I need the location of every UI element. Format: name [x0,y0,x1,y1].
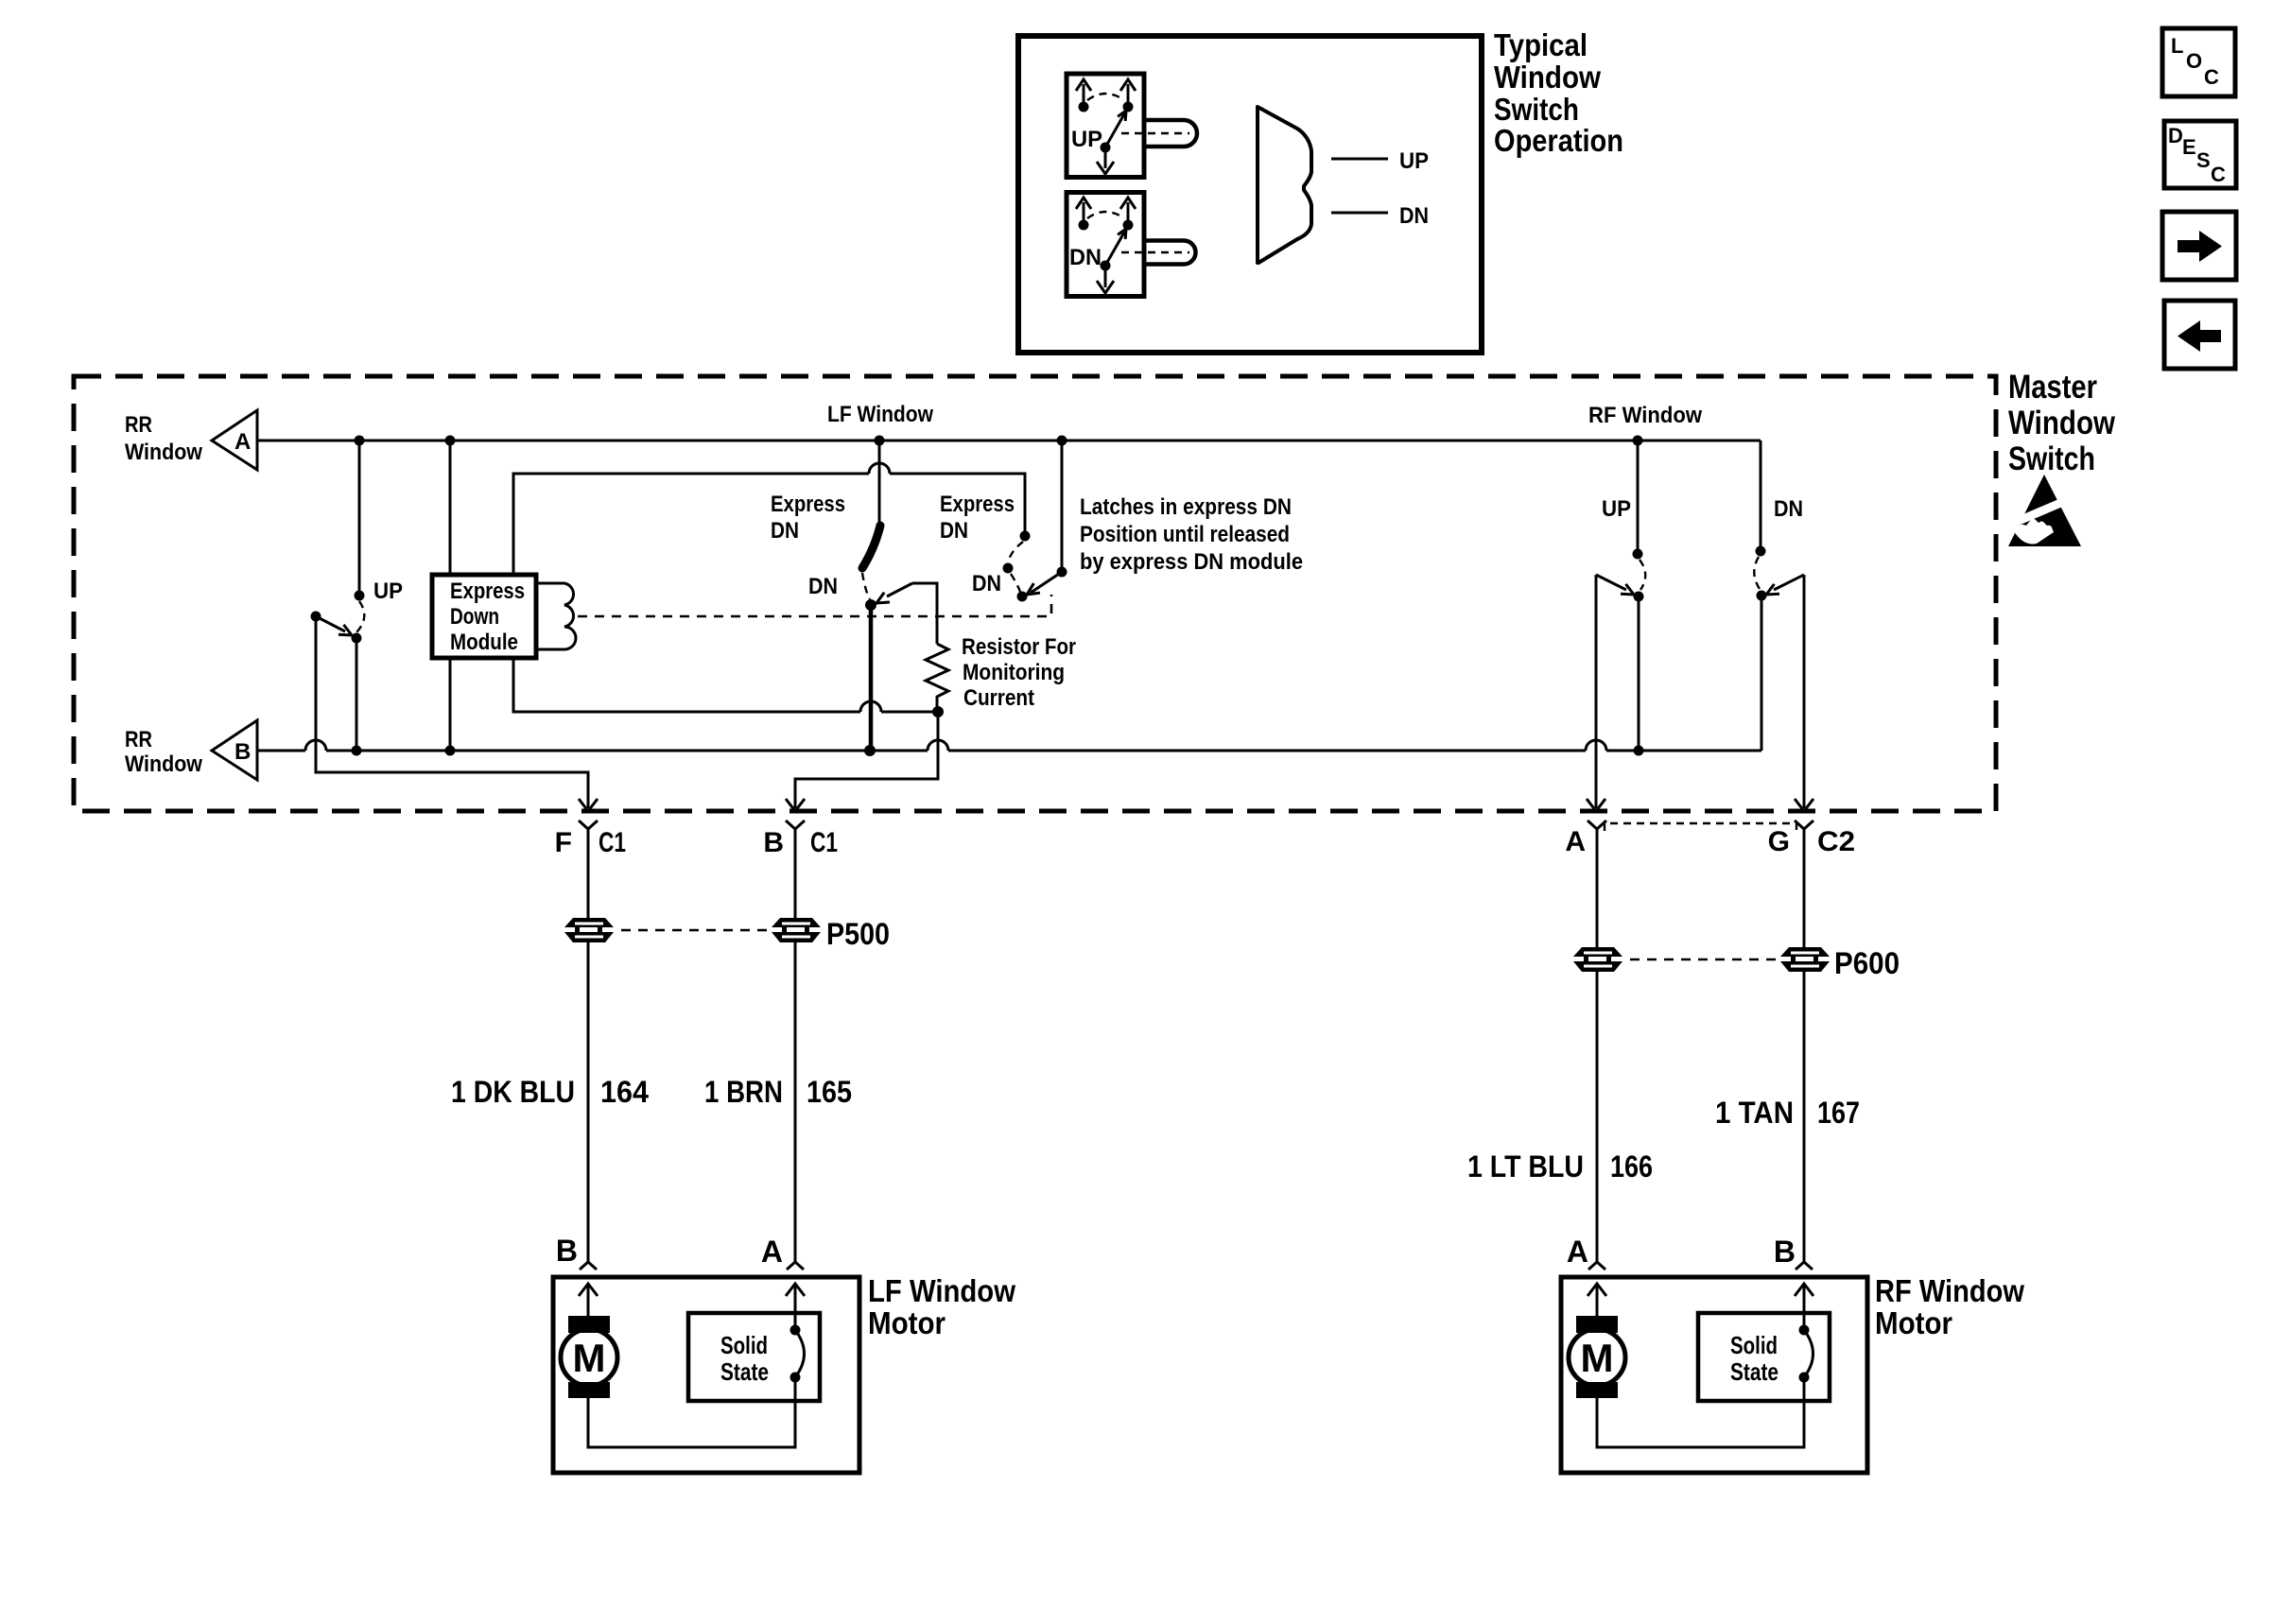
dashed control link from module coil [578,595,1051,616]
motor M RF [1569,1316,1625,1398]
label: 1 DK BLU 164 [451,1075,649,1109]
RF motor M entry arrow [1588,1284,1606,1316]
svg-text:Module: Module [450,630,518,655]
svg-text:Down: Down [450,604,499,630]
RF window motor box [1561,1277,1867,1473]
svg-text:164: 164 [600,1075,649,1109]
arrow into F C1 [579,799,598,811]
svg-text:Express: Express [450,579,525,604]
svg-text:Operation: Operation [1494,123,1623,158]
UP output line [1331,148,1429,174]
RF solid state entry arrow [1795,1284,1813,1330]
express down module wires [449,441,452,575]
motor M LF [561,1316,617,1398]
DN output line [1331,203,1429,229]
svg-text:State: State [1730,1357,1778,1386]
DN paddle [1121,241,1196,265]
master window switch dashed enclosure [74,376,1996,811]
svg-text:Motor: Motor [1875,1305,1952,1340]
solid state box LF [688,1313,820,1401]
svg-text:Resistor For: Resistor For [962,634,1076,660]
resistor for monitoring current [926,644,948,708]
svg-text:1 LT BLU: 1 LT BLU [1467,1149,1584,1183]
svg-text:Motor: Motor [868,1305,946,1340]
svg-text:E: E [2182,135,2196,159]
switch LF express DN (latched, thick lever) [808,441,880,751]
node B: RR Window triangle connector [125,720,257,780]
svg-text:D: D [2168,124,2183,147]
node junction dots on A bus [355,436,365,446]
svg-text:166: 166 [1610,1149,1653,1183]
svg-text:Window: Window [125,752,202,777]
title: Typical Window Switch Operation [1494,27,1623,158]
svg-text:1 TAN: 1 TAN [1715,1096,1794,1130]
wire: top A bus from triangle A to RF corner [257,440,1761,442]
connector F C1 [555,821,626,858]
svg-text:C: C [2204,65,2219,89]
wire: RF DN pole down to G C2 [1803,575,1806,808]
dashed link P600 [1630,959,1777,961]
svg-text:B: B [556,1234,578,1268]
label: 1 BRN 165 [704,1075,852,1109]
pin B at RF motor [1774,1235,1813,1270]
wire 164 (F to motor B) [587,942,590,1262]
svg-text:S: S [2196,148,2211,172]
svg-text:B: B [234,739,251,765]
svg-text:Position until released: Position until released [1080,522,1290,547]
wire: bottom B bus with crossover hops [257,740,1761,751]
svg-text:P500: P500 [826,917,890,951]
svg-text:Switch: Switch [1494,92,1579,127]
LF motor bottom loop wire [588,1377,795,1447]
RF motor bottom loop wire [1597,1377,1804,1447]
pin A at LF motor [761,1235,804,1270]
svg-text:C1: C1 [599,827,626,858]
svg-text:Window: Window [125,440,202,465]
wire: resistor node down to B C1 (hop over B bus) [795,712,938,808]
svg-text:Window: Window [1494,60,1601,95]
label: 1 TAN 167 [1715,1096,1860,1130]
wire: RF UP pole down to A C2 (hop over B bus) [1595,575,1598,808]
connector G C2 [1768,821,1855,857]
left arrow icon button [2164,301,2235,369]
LF window motor box [553,1277,859,1473]
svg-text:UP: UP [1399,148,1429,174]
svg-text:RR: RR [125,412,152,438]
svg-text:B: B [763,827,784,858]
svg-text:DN: DN [972,571,1001,596]
node A: RR Window triangle connector [125,410,257,470]
svg-text:M: M [573,1336,606,1380]
junction dots on B bus [352,746,362,756]
label: RF Window Motor [1875,1273,2024,1340]
svg-text:L: L [2171,34,2183,58]
wire 165 (B to motor A) [794,942,797,1262]
svg-text:Latches in express DN: Latches in express DN [1080,494,1292,520]
svg-text:by express DN module: by express DN module [1080,549,1303,575]
svg-text:167: 167 [1817,1096,1860,1130]
connector A C2 [1565,821,1606,857]
svg-text:Master: Master [2008,369,2097,406]
labels Express DN (left pair) [771,492,845,544]
svg-text:B: B [1774,1235,1796,1269]
label: LF Window Motor [868,1273,1015,1340]
wire B C1 down to P500 [794,829,797,918]
dashed link P500 [621,929,768,932]
ESD sensitivity symbol [1999,475,2085,546]
svg-text:G: G [1768,826,1790,857]
svg-text:A: A [234,429,251,455]
label: Resistor For Monitoring Current [962,634,1076,711]
svg-text:A: A [761,1235,783,1269]
svg-text:Solid: Solid [720,1331,768,1359]
svg-text:C: C [2211,163,2226,186]
svg-text:Typical: Typical [1494,27,1588,62]
svg-text:Express: Express [940,492,1015,517]
DESC icon button [2164,121,2236,188]
solid state box RF [1698,1313,1830,1401]
svg-text:1 BRN: 1 BRN [704,1075,783,1109]
UP rocker switch box [1067,74,1144,178]
svg-text:Express: Express [771,492,845,517]
svg-text:UP: UP [1602,496,1631,522]
wire G C2 down to P600 [1803,829,1806,947]
svg-text:LF Window: LF Window [827,402,933,427]
arrow into B C1 [786,799,805,811]
connector B C1 [763,821,838,858]
dashed C2 connector grouping [1605,823,1796,831]
label: Master Window Switch [2008,369,2116,477]
svg-text:State: State [720,1357,769,1386]
rocker side-view shape [1258,107,1311,263]
LF motor M entry arrow [579,1284,598,1316]
svg-text:A: A [1565,826,1586,857]
LOC icon button [2162,28,2235,96]
switch express DN 2 (right of resistor) [972,441,1067,602]
LF solid state entry arrow [786,1284,805,1330]
svg-text:Monitoring: Monitoring [963,660,1065,685]
svg-text:O: O [2186,49,2202,73]
wire: module top to express switch 2 (with hop over LF drop) [513,463,1025,575]
UP paddle [1121,120,1197,147]
svg-text:165: 165 [807,1075,852,1109]
wire 167 (G to motor B) [1803,972,1806,1262]
DN rocker switch box [1067,193,1144,297]
typical window switch operation box [1018,36,1482,353]
svg-text:UP: UP [1071,127,1102,152]
label: 1 LT BLU 166 [1467,1149,1653,1183]
svg-text:F: F [555,827,572,858]
resistor branch: DN pole corner and lever [876,583,937,644]
in-line connector P600 right half [1780,947,1830,972]
svg-text:C2: C2 [1817,826,1855,857]
svg-text:RF Window: RF Window [1588,403,1702,428]
wire: module bottom to resistor node (with hop) [513,658,938,712]
svg-text:DN: DN [1774,496,1803,522]
wire A C2 down to P600 [1596,829,1599,947]
wire 166 (A to motor A) [1596,972,1599,1262]
express down module box [432,575,536,658]
svg-text:A: A [1567,1235,1588,1269]
svg-text:DN: DN [940,518,968,544]
svg-text:1 DK BLU: 1 DK BLU [451,1075,575,1109]
svg-text:M: M [1581,1336,1614,1380]
switch RF DN [1754,441,1804,751]
switch RR UP (left): stub from A bus [311,441,404,751]
svg-text:RR: RR [125,727,152,752]
svg-text:Window: Window [2008,405,2116,441]
svg-text:DN: DN [808,574,838,599]
svg-text:Switch: Switch [2008,441,2095,477]
svg-text:LF Window: LF Window [868,1273,1015,1308]
svg-text:DN: DN [771,518,799,544]
switch RF UP [1596,441,1645,751]
svg-text:P600: P600 [1834,946,1900,980]
right arrow icon button [2162,212,2236,280]
label: Latches in express DN note [1080,494,1303,575]
svg-text:Current: Current [963,685,1034,711]
svg-text:C1: C1 [810,827,838,858]
svg-text:DN: DN [1069,245,1102,270]
module coil symbol [536,583,576,649]
pin B at LF motor [556,1234,597,1270]
pin A at RF motor [1567,1235,1605,1270]
svg-text:RF Window: RF Window [1875,1273,2024,1308]
svg-text:Solid: Solid [1730,1331,1778,1359]
svg-text:UP: UP [373,579,403,604]
in-line connector P600 left half [1573,947,1622,972]
wire: UP pole to F C1 [316,616,588,808]
in-line connector P500 right half [772,918,821,942]
svg-text:DN: DN [1399,203,1429,229]
in-line connector P500 left half [564,918,614,942]
wire F C1 down to P500 [587,829,590,920]
